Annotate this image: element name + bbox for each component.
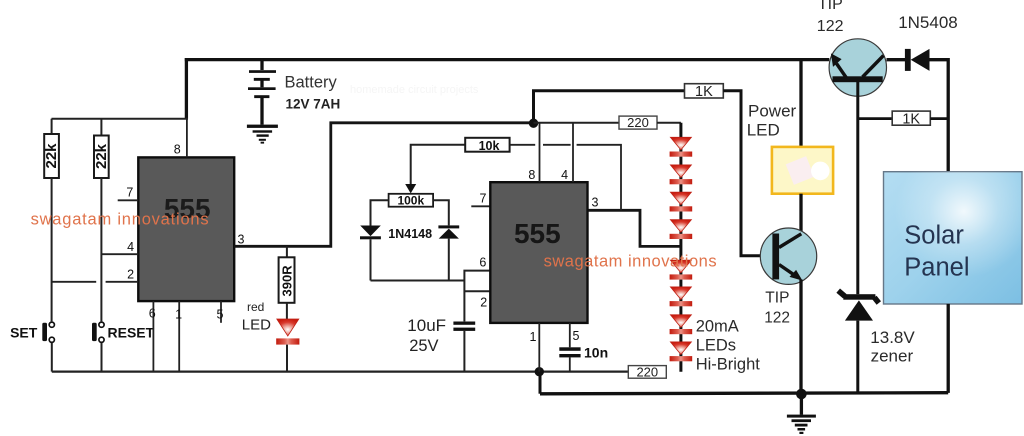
svg-text:LED: LED bbox=[747, 121, 780, 140]
LED D10 bbox=[670, 315, 693, 334]
LED D12 power LED lamp bbox=[772, 147, 833, 194]
svg-text:homemade circuit projects: homemade circuit projects bbox=[350, 84, 479, 96]
svg-text:3: 3 bbox=[238, 233, 245, 247]
svg-text:Solar: Solar bbox=[904, 221, 964, 249]
wire 390R to red LED bbox=[286, 303, 288, 319]
svg-text:5: 5 bbox=[573, 329, 580, 343]
wire below SET bbox=[51, 343, 53, 372]
svg-text:6: 6 bbox=[149, 307, 156, 321]
svg-text:Battery: Battery bbox=[285, 74, 338, 92]
svg-text:1K: 1K bbox=[902, 112, 920, 128]
wire LED chain backbone bbox=[679, 123, 682, 372]
svg-text:TIP: TIP bbox=[765, 290, 789, 307]
diode D2 1N4148 bbox=[438, 225, 459, 238]
svg-text:LED: LED bbox=[242, 316, 271, 333]
transistor Q2 TIP122 lower bbox=[760, 228, 816, 284]
wire below R2 bbox=[100, 178, 102, 321]
wire U1 pin4 bbox=[101, 253, 138, 255]
resistor R8 220 bottom bbox=[628, 364, 666, 379]
wire 1K top feed net bbox=[534, 91, 685, 123]
wire U1 pin6 bbox=[152, 301, 154, 372]
svg-text:390R: 390R bbox=[279, 265, 294, 297]
timer IC U2 555 bbox=[490, 182, 587, 323]
battery B1 bbox=[248, 58, 276, 125]
transistor Q1 TIP122 upper bbox=[829, 39, 886, 96]
svg-text:Hi-Bright: Hi-Bright bbox=[696, 356, 761, 374]
svg-text:Panel: Panel bbox=[904, 253, 969, 281]
wire pins 6-2 bracket U2 bbox=[464, 271, 490, 322]
LED D4 bbox=[670, 137, 693, 156]
svg-text:Power: Power bbox=[748, 101, 797, 120]
wire thin rail feeding 22k resistors bbox=[52, 118, 189, 120]
pushbutton RESET bbox=[92, 322, 155, 342]
wire U1 pin1 bbox=[178, 301, 180, 372]
ground battery earth bbox=[247, 125, 278, 144]
svg-text:1: 1 bbox=[530, 330, 537, 344]
wire top positive rail bbox=[185, 58, 829, 61]
svg-text:10n: 10n bbox=[584, 345, 608, 361]
svg-text:20mA: 20mA bbox=[696, 317, 739, 335]
svg-text:RESET: RESET bbox=[108, 324, 155, 340]
solar panel PV1 bbox=[884, 172, 1023, 304]
svg-text:220: 220 bbox=[636, 364, 658, 379]
wire 220 to LED chain top bbox=[657, 122, 681, 124]
wire U1 pin8 bbox=[186, 119, 188, 158]
capacitor C1 10uF bbox=[453, 322, 475, 331]
svg-text:22k: 22k bbox=[93, 143, 110, 169]
svg-text:25V: 25V bbox=[409, 337, 438, 355]
svg-text:1: 1 bbox=[175, 308, 182, 322]
svg-text:4: 4 bbox=[561, 168, 568, 182]
wire R4 to Q2 base drop bbox=[723, 91, 772, 256]
resistor R9 1K right bbox=[858, 111, 948, 128]
wire D2 down bbox=[448, 239, 450, 281]
resistor R3 390R bbox=[279, 257, 295, 303]
svg-text:swagatam innovations: swagatam innovations bbox=[31, 211, 209, 229]
wire bottom right ground rail bbox=[540, 393, 948, 394]
svg-text:2: 2 bbox=[480, 296, 487, 310]
wire Q2 emitter to ground bbox=[799, 280, 802, 395]
wire U2 pin5 bbox=[569, 323, 571, 347]
wire pot right to D2 bbox=[433, 200, 449, 225]
svg-text:7: 7 bbox=[480, 191, 487, 205]
svg-text:6: 6 bbox=[479, 256, 486, 270]
svg-text:8: 8 bbox=[528, 168, 535, 182]
svg-text:1N5408: 1N5408 bbox=[898, 13, 958, 32]
wire solar panel top drop bbox=[947, 58, 950, 172]
LED D7 bbox=[670, 220, 693, 239]
svg-text:4: 4 bbox=[127, 240, 134, 254]
wire junction to 220 top bbox=[534, 122, 620, 124]
svg-text:1N4148: 1N4148 bbox=[388, 227, 432, 241]
svg-text:8: 8 bbox=[174, 143, 181, 157]
node junction main ground bbox=[796, 389, 807, 400]
LED D3 red indicator bbox=[276, 319, 299, 345]
svg-text:LEDs: LEDs bbox=[696, 336, 736, 354]
resistor R6 10k bbox=[465, 138, 509, 153]
pushbutton SET bbox=[10, 322, 54, 342]
svg-text:555: 555 bbox=[514, 218, 561, 249]
wire 10k left to pot arrow corner bbox=[411, 145, 466, 185]
wire bottom left ground rail bbox=[52, 371, 629, 373]
resistor R1 22k bbox=[43, 134, 60, 178]
ground main earth symbol bbox=[787, 394, 816, 434]
svg-text:TIP: TIP bbox=[818, 0, 843, 13]
zener D14 13.8V bbox=[838, 291, 879, 321]
svg-text:7: 7 bbox=[126, 186, 133, 200]
wire power LED top bbox=[799, 60, 802, 147]
wire U1 pin3 output net bbox=[234, 123, 533, 247]
wire below RESET bbox=[101, 343, 103, 372]
potentiometer wiper arrow bbox=[405, 184, 416, 193]
wire SET branch upper bbox=[51, 119, 53, 134]
wire RESET branch upper bbox=[100, 119, 102, 136]
svg-text:122: 122 bbox=[817, 18, 844, 35]
wire diode bottom to pin2/6 bbox=[371, 280, 465, 282]
wire D1 down bbox=[370, 239, 372, 280]
diode D13 1N5408 bbox=[887, 49, 949, 71]
svg-text:SET: SET bbox=[10, 324, 38, 340]
svg-text:red: red bbox=[247, 300, 264, 314]
svg-text:22k: 22k bbox=[43, 143, 60, 169]
svg-text:3: 3 bbox=[592, 196, 599, 210]
svg-text:10k: 10k bbox=[479, 139, 500, 153]
LED D9 bbox=[670, 287, 693, 306]
node junction pin1 U2 ground bbox=[535, 367, 544, 376]
node junction oscillator supply bbox=[529, 119, 538, 128]
svg-text:13.8V: 13.8V bbox=[870, 328, 915, 347]
wire below R1 bbox=[51, 178, 53, 321]
potentiometer R7 100k bbox=[389, 194, 434, 208]
LED D5 bbox=[670, 165, 693, 184]
wire above 390R bbox=[286, 246, 288, 257]
LED D8 bbox=[670, 260, 693, 279]
wire C2 to ground rail bbox=[569, 357, 571, 371]
svg-text:10uF: 10uF bbox=[407, 316, 446, 335]
wire Q1 base down to zener node bbox=[856, 81, 859, 294]
svg-text:5: 5 bbox=[217, 308, 224, 322]
capacitor C2 10n bbox=[559, 347, 580, 357]
wire U2 pin1 bbox=[538, 323, 540, 372]
svg-text:1K: 1K bbox=[695, 84, 713, 100]
wire C1 to ground rail bbox=[463, 331, 465, 372]
LED D11 bbox=[670, 342, 693, 361]
svg-text:2: 2 bbox=[127, 268, 134, 282]
wire U2 pin4 bbox=[572, 123, 574, 182]
wire U1 pin5 stub bbox=[220, 301, 222, 323]
wire 10k right with hop gaps to pin3 net drop bbox=[510, 145, 621, 211]
wire U1 pin7 stub bbox=[118, 199, 139, 201]
wire red LED to ground rail bbox=[286, 345, 288, 372]
resistor R2 22k bbox=[93, 136, 110, 179]
svg-text:swagatam innovations: swagatam innovations bbox=[544, 253, 717, 271]
svg-text:220: 220 bbox=[627, 115, 649, 130]
wire U2 pin3 to LED chain bbox=[588, 210, 681, 246]
wire U2 pin8 bbox=[539, 123, 541, 182]
wire pot left to D1 bbox=[371, 200, 389, 225]
resistor R5 220 bbox=[619, 115, 657, 130]
wire solar panel bottom drop bbox=[947, 304, 950, 393]
svg-text:12V 7AH: 12V 7AH bbox=[286, 97, 341, 112]
wire drop to lower rail bbox=[539, 372, 542, 394]
LED D6 bbox=[670, 192, 693, 211]
svg-text:zener: zener bbox=[871, 347, 914, 366]
svg-text:100k: 100k bbox=[397, 194, 424, 208]
diode D1 1N4148 bbox=[360, 226, 381, 240]
resistor R4 1K bbox=[685, 84, 724, 100]
wire U2 pin7 stub bbox=[471, 205, 490, 207]
op timer IC U1 555 bbox=[138, 157, 234, 301]
wire power LED to Q2 collector bbox=[799, 194, 802, 234]
wire zener to ground rail bbox=[856, 321, 859, 393]
wire left drop from top rail bbox=[185, 58, 188, 119]
wire U1 pin2 with hop gap bbox=[52, 281, 139, 283]
svg-text:122: 122 bbox=[764, 310, 790, 327]
